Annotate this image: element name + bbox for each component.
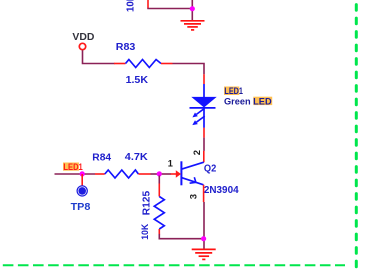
svg-text:10K: 10K	[140, 223, 150, 239]
transistor Q2 base pin (1) with direction arrow	[162, 170, 181, 178]
resistor R? (partial, top edge) value 10K rotated	[125, 0, 148, 12]
LED1 bottom pin	[203, 128, 205, 138]
svg-text:VDD: VDD	[72, 32, 94, 43]
LED1 top pin	[203, 74, 205, 84]
LED1 designator label (highlighted)	[224, 86, 243, 96]
power port VDD	[72, 32, 94, 50]
svg-text:R125: R125	[141, 190, 152, 215]
svg-text:2N3904: 2N3904	[204, 185, 239, 196]
resistor R83 body	[126, 60, 162, 68]
junction dot TP8	[80, 171, 85, 176]
wire top horizontal to junction	[147, 8, 192, 10]
svg-text:2: 2	[192, 150, 203, 155]
transistor Q2 emitter arrow	[190, 177, 196, 183]
resistor R83 left pin	[114, 63, 126, 65]
transistor Q2 base bar	[180, 161, 182, 185]
wire Q2 emitter pin down	[203, 185, 205, 202]
svg-text:4.7K: 4.7K	[125, 152, 149, 163]
LED1 triangle	[192, 97, 215, 107]
svg-text:LED1: LED1	[63, 162, 82, 172]
svg-text:3: 3	[189, 194, 200, 199]
LED1 cathode bar	[190, 107, 216, 109]
junction dot bottom	[201, 236, 206, 241]
resistor R84 right pin	[138, 173, 150, 175]
ground (top)	[181, 21, 205, 30]
LED1 comment Green LED (highlighted)	[224, 96, 272, 106]
resistor R125 body	[154, 197, 164, 230]
wire R83 to LED corner	[173, 64, 205, 75]
LED1 anode lead	[203, 84, 205, 98]
junction dot base	[157, 171, 162, 176]
svg-text:R84: R84	[92, 152, 111, 163]
LED1 emission arrow 1	[192, 108, 204, 117]
transistor Q2 emitter lead	[181, 178, 203, 185]
wire LED to Q2 collector	[203, 138, 205, 151]
svg-text:Green LED: Green LED	[224, 96, 272, 106]
svg-text:R83: R83	[116, 42, 136, 53]
svg-text:1.5K: 1.5K	[126, 75, 149, 86]
selection frame vertical (green dashed)	[355, 5, 358, 268]
svg-text:LED1: LED1	[224, 86, 243, 96]
ground (bottom)	[192, 249, 216, 259]
resistor R83 right pin	[161, 63, 173, 65]
LED1 cathode lead	[203, 108, 205, 128]
wire left to R84	[55, 173, 96, 175]
net label LED1 (highlighted)	[63, 162, 83, 172]
wire top vertical through junction	[191, 0, 193, 20]
resistor R84 body	[105, 170, 139, 178]
test point TP8 symbol	[77, 186, 87, 196]
resistor R125 bottom pin	[158, 229, 160, 235]
transistor Q2 collector pin (2)	[203, 151, 205, 163]
svg-text:1: 1	[168, 158, 173, 168]
svg-text:10K: 10K	[125, 0, 136, 12]
transistor Q2 collector lead	[181, 162, 203, 169]
resistor R125 top pin	[158, 176, 160, 184]
selection frame horizontal (green dashed)	[3, 264, 345, 266]
LED1 emission arrow 2	[192, 116, 204, 125]
svg-text:Q2: Q2	[204, 163, 217, 174]
resistor R84 left pin	[95, 173, 105, 175]
junction dot top	[190, 6, 195, 11]
wire R125 to ground junction	[159, 234, 204, 239]
wire VDD to R83	[83, 50, 115, 63]
svg-text:TP8: TP8	[71, 202, 91, 213]
test point TP8 stub	[81, 174, 83, 186]
wire emitter to ground junction	[203, 202, 205, 249]
wire R84 to base junction	[151, 173, 160, 175]
